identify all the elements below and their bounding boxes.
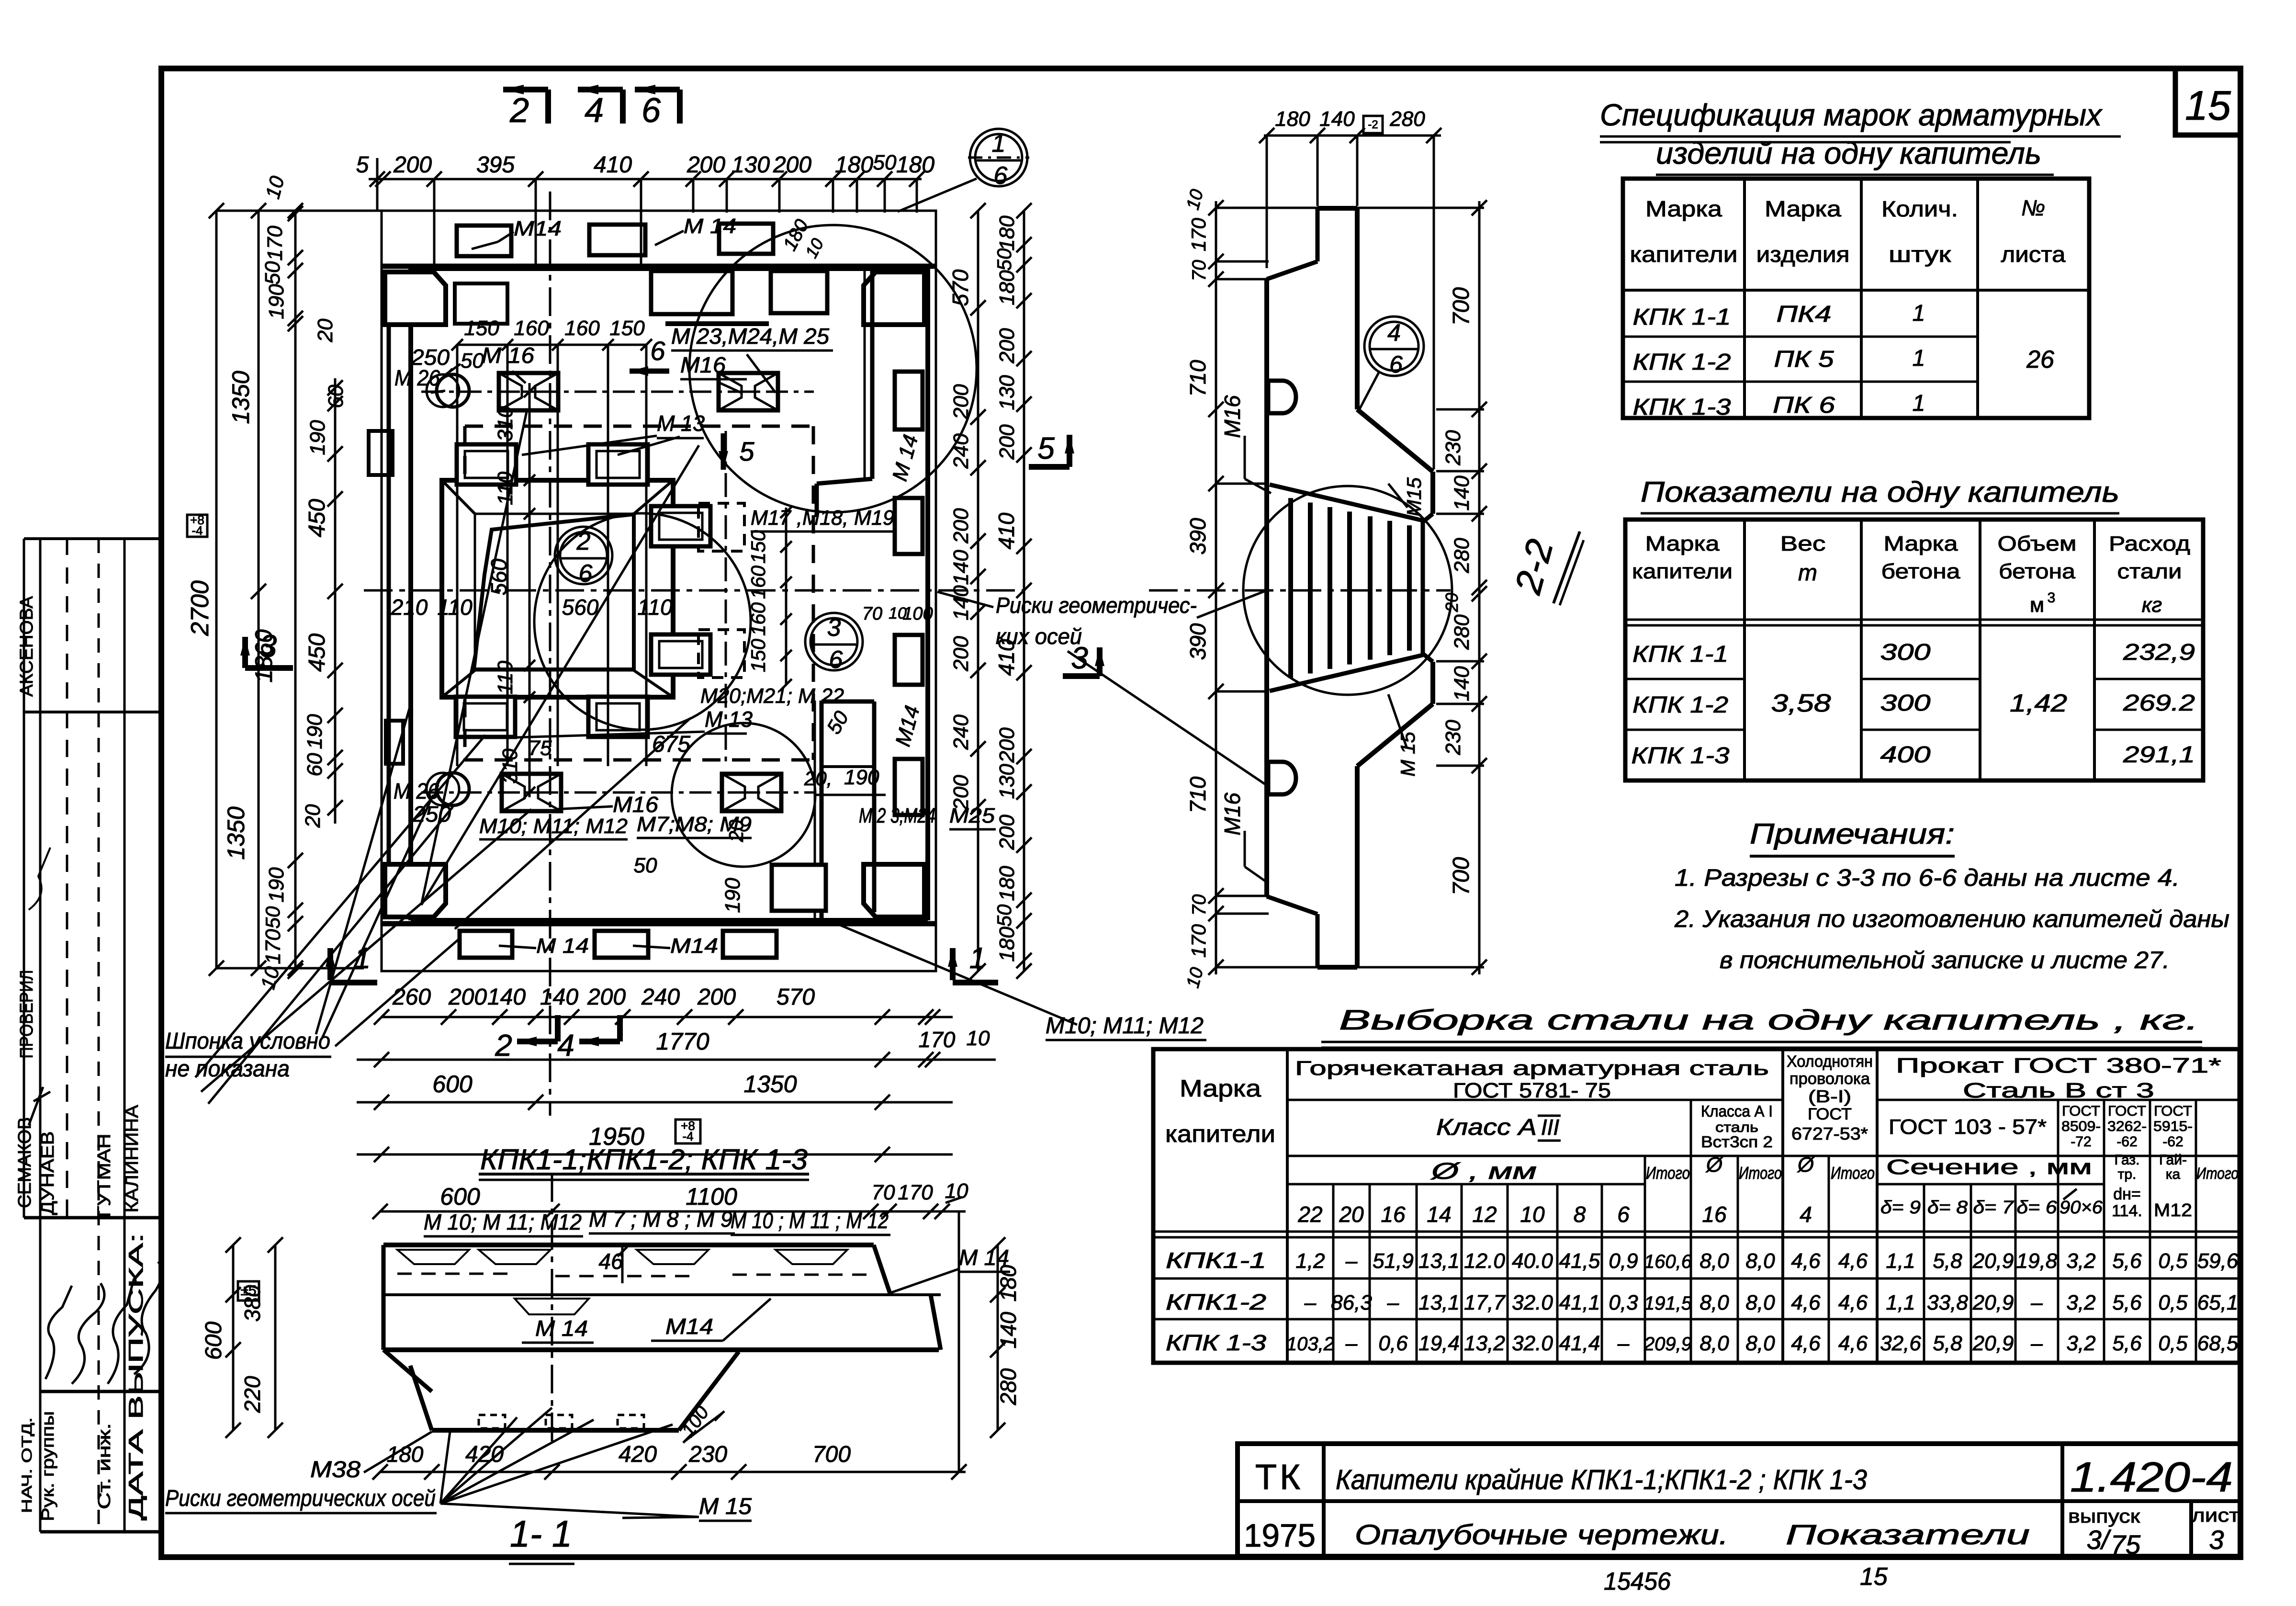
svg-text:50: 50	[261, 261, 284, 284]
svg-text:17,7: 17,7	[1464, 1291, 1506, 1314]
svg-text:М 14: М 14	[684, 215, 736, 238]
svg-text:50: 50	[993, 248, 1015, 271]
svg-text:6: 6	[1617, 1202, 1630, 1227]
svg-text:m: m	[1798, 560, 1817, 586]
svg-text:1: 1	[969, 942, 986, 975]
svg-text:150: 150	[464, 317, 499, 340]
svg-text:100: 100	[902, 604, 933, 624]
svg-text:Вес: Вес	[1780, 532, 1826, 555]
svg-text:110: 110	[637, 595, 673, 620]
svg-text:140: 140	[1450, 475, 1474, 511]
svg-text:150: 150	[747, 530, 769, 564]
svg-text:191,5: 191,5	[1644, 1293, 1692, 1314]
svg-text:-2: -2	[1368, 118, 1378, 131]
svg-text:М16: М16	[1220, 395, 1245, 438]
svg-text:М 23,М24,М 25: М 23,М24,М 25	[671, 324, 829, 349]
svg-text:в пояснительной записке и: в пояснительной записке и листе 27.	[1720, 947, 2170, 973]
svg-text:1: 1	[992, 130, 1006, 158]
svg-text:20: 20	[1442, 593, 1462, 612]
svg-text:130: 130	[995, 764, 1019, 799]
svg-text:86,3: 86,3	[1331, 1291, 1372, 1314]
svg-text:М 15: М 15	[699, 1494, 752, 1519]
svg-text:65,1: 65,1	[2197, 1291, 2239, 1314]
svg-text:штук: штук	[1889, 242, 1951, 267]
svg-text:10: 10	[967, 1027, 990, 1050]
svg-text:Марка: Марка	[1765, 196, 1841, 221]
svg-text:170: 170	[1187, 924, 1210, 958]
svg-text:700: 700	[1449, 287, 1474, 326]
svg-text:ГОСТ: ГОСТ	[2154, 1103, 2192, 1119]
svg-text:6: 6	[829, 646, 843, 674]
svg-text:Ø: Ø	[1797, 1153, 1815, 1176]
svg-text:8,0: 8,0	[1745, 1249, 1775, 1273]
svg-text:6: 6	[579, 560, 593, 588]
svg-text:269.2: 269.2	[2123, 690, 2195, 716]
svg-text:δ= 8: δ= 8	[1927, 1198, 1968, 1218]
svg-text:2700: 2700	[186, 580, 214, 636]
svg-text:310: 310	[498, 748, 522, 784]
svg-text:Марка: Марка	[1884, 532, 1958, 555]
svg-text:0,9: 0,9	[1609, 1249, 1638, 1273]
svg-text:Спецификация марок арматурн: Спецификация марок арматурных	[1600, 98, 2103, 132]
svg-text:Сталь В ст 3: Сталь В ст 3	[1963, 1079, 2154, 1102]
svg-text:Риски геометрических осей: Риски геометрических осей	[165, 1486, 436, 1511]
svg-text:50: 50	[461, 349, 484, 373]
svg-text:ких осей: ких осей	[996, 624, 1082, 649]
svg-text:240: 240	[949, 433, 973, 469]
svg-text:(В-I): (В-I)	[1808, 1086, 1851, 1106]
svg-text:ГОСТ 5781- 75: ГОСТ 5781- 75	[1453, 1079, 1611, 1102]
svg-text:280: 280	[1450, 614, 1474, 650]
svg-text:2: 2	[495, 1028, 512, 1063]
svg-text:3,2: 3,2	[2066, 1249, 2095, 1273]
svg-text:капители: капители	[1630, 242, 1738, 267]
svg-text:III: III	[1541, 1115, 1560, 1140]
svg-text:–: –	[1387, 1291, 1399, 1314]
svg-text:бетона: бетона	[1999, 560, 2076, 583]
svg-text:150: 150	[747, 638, 769, 672]
svg-text:4,6: 4,6	[1791, 1291, 1821, 1314]
svg-text:150: 150	[609, 317, 645, 340]
svg-text:8,0: 8,0	[1745, 1332, 1775, 1355]
svg-text:4,6: 4,6	[1838, 1332, 1868, 1355]
svg-text:Показатели: Показатели	[1786, 1519, 2030, 1550]
svg-text:Класса А I: Класса А I	[1701, 1102, 1773, 1120]
svg-text:16: 16	[1381, 1202, 1406, 1227]
svg-text:390: 390	[1185, 518, 1210, 554]
svg-text:М 10 ; М 11 ; М 12: М 10 ; М 11 ; М 12	[731, 1208, 889, 1233]
svg-text:710: 710	[1185, 360, 1210, 396]
svg-text:180: 180	[1275, 107, 1310, 131]
svg-text:М 26: М 26	[394, 365, 440, 390]
svg-text:200: 200	[995, 424, 1019, 460]
svg-text:190: 190	[844, 766, 879, 789]
svg-text:КПК 1-2: КПК 1-2	[1633, 350, 1731, 375]
svg-text:1,2: 1,2	[1295, 1249, 1325, 1273]
svg-text:КПК 1-3: КПК 1-3	[1166, 1330, 1267, 1355]
svg-text:1- 1: 1- 1	[510, 1513, 572, 1555]
svg-text:8,0: 8,0	[1745, 1291, 1775, 1314]
svg-text:выпуск: выпуск	[2068, 1506, 2140, 1527]
svg-text:М 26: М 26	[394, 779, 439, 803]
svg-text:180: 180	[996, 1265, 1021, 1301]
svg-text:180: 180	[896, 152, 934, 178]
svg-text:190: 190	[306, 420, 329, 455]
svg-text:12: 12	[1472, 1202, 1497, 1227]
svg-text:4: 4	[585, 91, 604, 130]
svg-text:Шпонка условно: Шпонка условно	[165, 1029, 330, 1054]
svg-text:1350: 1350	[227, 371, 254, 424]
svg-text:200: 200	[995, 814, 1019, 850]
svg-text:Марка: Марка	[1645, 196, 1722, 221]
svg-text:ПК 6: ПК 6	[1773, 393, 1835, 418]
svg-text:280: 280	[1450, 538, 1474, 574]
svg-text:ПРОВЕРИЛ: ПРОВЕРИЛ	[17, 970, 37, 1059]
svg-text:33,8: 33,8	[1927, 1291, 1968, 1314]
svg-text:6: 6	[1389, 351, 1403, 378]
svg-text:5,6: 5,6	[2112, 1291, 2142, 1314]
svg-text:Итого: Итого	[2196, 1165, 2239, 1183]
svg-text:НАЧ. ОТД.: НАЧ. ОТД.	[19, 1417, 35, 1513]
svg-text:δ= 7: δ= 7	[1973, 1198, 2015, 1218]
svg-text:М38: М38	[310, 1457, 360, 1482]
svg-text:М 7 ; М 8 ; М 9: М 7 ; М 8 ; М 9	[589, 1207, 732, 1232]
svg-text:41,5: 41,5	[1559, 1249, 1600, 1273]
svg-text:1. Разрезы с 3-3 по 6-6: 1. Разрезы с 3-3 по 6-6 даны на листе 4.	[1675, 864, 2180, 891]
svg-text:380: 380	[240, 1285, 265, 1322]
svg-text:М16: М16	[680, 352, 726, 377]
svg-text:140: 140	[1319, 107, 1355, 131]
svg-text:5,6: 5,6	[2112, 1249, 2142, 1273]
svg-text:8509-: 8509-	[2061, 1119, 2101, 1134]
svg-text:Риски геометричес-: Риски геометричес-	[996, 593, 1197, 618]
svg-text:15: 15	[2185, 83, 2231, 129]
svg-text:20,9: 20,9	[1972, 1291, 2014, 1314]
svg-text:190: 190	[265, 867, 288, 903]
svg-text:390: 390	[1185, 623, 1210, 660]
svg-text:М25: М25	[949, 804, 995, 827]
svg-text:210: 210	[391, 595, 428, 620]
svg-text:1.420-4: 1.420-4	[2070, 1453, 2233, 1501]
svg-text:200: 200	[393, 152, 432, 178]
svg-text:300: 300	[1880, 640, 1931, 665]
svg-text:60: 60	[303, 753, 326, 776]
svg-text:Колич.: Колич.	[1881, 196, 1958, 221]
svg-text:Горячекатаная арматурная: Горячекатаная арматурная сталь	[1295, 1057, 1769, 1079]
svg-text:6: 6	[994, 162, 1008, 190]
svg-text:570: 570	[777, 984, 815, 1010]
svg-text:Примечания:: Примечания:	[1750, 818, 1955, 850]
svg-text:560: 560	[562, 595, 599, 620]
svg-text:70: 70	[872, 1181, 895, 1204]
svg-text:4,6: 4,6	[1791, 1332, 1821, 1355]
svg-text:КПК 1-3: КПК 1-3	[1632, 743, 1730, 769]
svg-text:41,4: 41,4	[1559, 1332, 1600, 1355]
svg-text:8,0: 8,0	[1699, 1291, 1729, 1314]
svg-text:Расход: Расход	[2109, 532, 2190, 555]
svg-text:ГУТМАН: ГУТМАН	[94, 1134, 114, 1218]
svg-text:22: 22	[1297, 1202, 1322, 1227]
svg-text:Объем: Объем	[1998, 532, 2077, 555]
svg-text:280: 280	[1389, 107, 1425, 131]
svg-text:4,6: 4,6	[1838, 1291, 1868, 1314]
svg-text:М10; М11; М12: М10; М11; М12	[1046, 1013, 1204, 1039]
svg-text:КПК1-1;КПК1-2; КПК 1-3: КПК1-1;КПК1-2; КПК 1-3	[480, 1143, 808, 1176]
svg-text:15456: 15456	[1604, 1568, 1671, 1595]
svg-text:ГОСТ 103 - 57*: ГОСТ 103 - 57*	[1889, 1115, 2047, 1139]
svg-text:200: 200	[697, 984, 736, 1010]
svg-text:КПК 1-2: КПК 1-2	[1632, 692, 1728, 718]
svg-text:20,9: 20,9	[1972, 1249, 2014, 1273]
svg-text:280: 280	[996, 1368, 1021, 1405]
svg-text:570: 570	[948, 269, 973, 306]
svg-text:Капители крайние КПК1-1;КПК1-2: Капители крайние КПК1-1;КПК1-2 ; КПК 1-3	[1336, 1464, 1867, 1495]
svg-text:Выборка стали на: Выборка стали на одну капитель , кг.	[1339, 1005, 2199, 1036]
svg-text:5: 5	[356, 152, 369, 178]
svg-text:2. Указания по изготовлению: 2. Указания по изготовлению капителей да…	[1674, 905, 2229, 932]
svg-text:50: 50	[634, 854, 657, 877]
svg-text:32.0: 32.0	[1512, 1291, 1553, 1314]
svg-text:190: 190	[303, 714, 326, 749]
svg-text:М 15: М 15	[1396, 732, 1419, 777]
svg-text:Газ.: Газ.	[2115, 1152, 2140, 1168]
svg-text:м: м	[2030, 593, 2044, 617]
svg-text:200: 200	[587, 984, 626, 1010]
svg-text:–: –	[2030, 1291, 2043, 1314]
svg-text:32,6: 32,6	[1880, 1332, 1921, 1355]
svg-text:КПК1-1: КПК1-1	[1166, 1248, 1266, 1273]
svg-text:310: 310	[494, 406, 517, 441]
svg-text:14: 14	[1427, 1202, 1451, 1227]
svg-text:3: 3	[2048, 590, 2056, 606]
svg-text:4,6: 4,6	[1791, 1249, 1821, 1273]
svg-text:232,9: 232,9	[2123, 640, 2195, 665]
svg-text:3/: 3/	[2087, 1525, 2112, 1555]
svg-text:Опалубочные чертежи.: Опалубочные чертежи.	[1355, 1519, 1728, 1550]
svg-text:Прокат ГОСТ 380-71*: Прокат ГОСТ 380-71*	[1896, 1054, 2221, 1077]
svg-text:0,3: 0,3	[1609, 1291, 1638, 1314]
svg-text:3,58: 3,58	[1771, 690, 1831, 717]
svg-text:М12: М12	[2154, 1200, 2192, 1221]
svg-text:140: 140	[540, 984, 578, 1010]
svg-text:проволока: проволока	[1790, 1070, 1870, 1088]
svg-text:15: 15	[1860, 1563, 1888, 1591]
svg-text:50: 50	[261, 906, 284, 928]
svg-text:200: 200	[949, 384, 973, 420]
svg-text:8,0: 8,0	[1699, 1332, 1729, 1355]
svg-text:200: 200	[448, 984, 487, 1010]
svg-text:М 13: М 13	[657, 411, 705, 436]
svg-text:1770: 1770	[656, 1028, 709, 1055]
svg-text:ГОСТ: ГОСТ	[2108, 1103, 2146, 1119]
svg-text:М 2 3;М24: М 2 3;М24	[859, 804, 935, 827]
svg-text:700: 700	[812, 1442, 851, 1467]
svg-text:Вст3сп 2: Вст3сп 2	[1701, 1133, 1773, 1151]
svg-text:–: –	[1304, 1291, 1317, 1314]
svg-text:кг: кг	[2142, 593, 2162, 617]
svg-text:13,1: 13,1	[1418, 1291, 1460, 1314]
svg-text:Класс А: Класс А	[1436, 1115, 1537, 1140]
svg-text:М14: М14	[665, 1314, 713, 1339]
svg-text:М 14: М 14	[535, 1316, 588, 1341]
svg-text:13,2: 13,2	[1464, 1332, 1505, 1355]
svg-text:Ø: Ø	[1705, 1153, 1724, 1176]
svg-text:δ= 9: δ= 9	[1880, 1198, 1921, 1218]
svg-text:220: 220	[240, 1376, 265, 1413]
svg-text:М 10; М 11; М12: М 10; М 11; М12	[424, 1210, 582, 1234]
svg-text:4,6: 4,6	[1838, 1249, 1868, 1273]
svg-text:10: 10	[1520, 1202, 1545, 1227]
svg-text:1: 1	[1913, 346, 1925, 371]
svg-text:М 14: М 14	[536, 934, 589, 958]
svg-text:180: 180	[995, 270, 1019, 305]
svg-text:420: 420	[619, 1442, 657, 1467]
svg-text:0,6: 0,6	[1378, 1332, 1408, 1355]
svg-text:1100: 1100	[686, 1183, 737, 1210]
svg-text:180: 180	[995, 927, 1019, 962]
svg-text:200: 200	[687, 152, 725, 178]
svg-text:-62: -62	[2162, 1134, 2183, 1150]
svg-text:тр.: тр.	[2118, 1166, 2137, 1182]
svg-text:5: 5	[739, 436, 754, 466]
svg-text:60: 60	[324, 385, 348, 408]
svg-text:140: 140	[487, 984, 526, 1010]
svg-text:0,5: 0,5	[2158, 1249, 2188, 1273]
svg-text:СЕМАКОВ: СЕМАКОВ	[15, 1117, 35, 1208]
svg-text:180: 180	[995, 215, 1019, 251]
svg-text:АКСЕНОВА: АКСЕНОВА	[17, 596, 37, 697]
svg-text:8,0: 8,0	[1699, 1249, 1729, 1273]
svg-text:ка: ка	[2166, 1166, 2181, 1182]
svg-text:5,8: 5,8	[1933, 1249, 1962, 1273]
svg-text:Итого: Итого	[1831, 1163, 1875, 1183]
svg-text:450: 450	[304, 499, 330, 537]
svg-text:Ø , мм: Ø , мм	[1430, 1159, 1537, 1184]
svg-text:1975: 1975	[1244, 1517, 1316, 1554]
svg-text:19,4: 19,4	[1418, 1332, 1460, 1355]
svg-text:75: 75	[529, 736, 552, 760]
svg-text:160: 160	[747, 602, 769, 636]
svg-text:3: 3	[2209, 1525, 2224, 1555]
svg-text:Итого: Итого	[1739, 1163, 1782, 1183]
svg-text:20,: 20,	[804, 767, 832, 790]
svg-text:-4: -4	[191, 523, 203, 538]
svg-text:Марка: Марка	[1180, 1075, 1261, 1102]
svg-text:1,1: 1,1	[1886, 1249, 1915, 1273]
svg-text:50: 50	[993, 904, 1015, 927]
svg-text:5,8: 5,8	[1933, 1332, 1962, 1355]
svg-text:12.0: 12.0	[1464, 1249, 1505, 1273]
svg-text:26: 26	[2026, 346, 2054, 373]
svg-text:М16: М16	[1220, 792, 1245, 836]
svg-text:Холоднотян: Холоднотян	[1787, 1052, 1873, 1071]
svg-text:190: 190	[721, 878, 744, 913]
svg-text:1350: 1350	[223, 806, 249, 860]
svg-text:5,6: 5,6	[2112, 1332, 2142, 1355]
svg-text:4: 4	[1387, 319, 1401, 346]
svg-text:70: 70	[1189, 260, 1210, 282]
svg-text:230: 230	[1441, 720, 1465, 756]
svg-text:ДУНАЕВ: ДУНАЕВ	[38, 1131, 58, 1215]
svg-text:ПК4: ПК4	[1777, 302, 1832, 327]
svg-text:180: 180	[995, 866, 1019, 901]
svg-text:240: 240	[641, 984, 680, 1010]
svg-text:240: 240	[949, 714, 973, 750]
svg-text:№: №	[2021, 195, 2045, 220]
svg-text:2: 2	[509, 91, 529, 130]
svg-text:6: 6	[650, 336, 665, 366]
svg-text:Итого: Итого	[1646, 1163, 1690, 1183]
svg-text:Гай-: Гай-	[2159, 1152, 2187, 1168]
svg-text:лист: лист	[2192, 1505, 2240, 1526]
svg-text:М14: М14	[514, 217, 562, 240]
svg-text:160: 160	[747, 565, 769, 599]
svg-text:13,1: 13,1	[1418, 1249, 1460, 1273]
svg-text:200: 200	[949, 636, 973, 672]
svg-text:0,5: 0,5	[2158, 1332, 2188, 1355]
svg-text:230: 230	[1441, 430, 1465, 466]
svg-text:170: 170	[898, 1181, 933, 1204]
svg-text:3,2: 3,2	[2066, 1332, 2095, 1355]
svg-text:изделий на одну капитель: изделий на одну капитель	[1656, 136, 2041, 170]
svg-text:3: 3	[259, 628, 277, 664]
svg-text:КПК 1-3: КПК 1-3	[1633, 395, 1731, 420]
svg-text:КПК 1-1: КПК 1-1	[1632, 642, 1728, 667]
svg-text:410: 410	[594, 152, 632, 178]
svg-text:1,42: 1,42	[2010, 690, 2067, 717]
svg-text:-62: -62	[2116, 1134, 2137, 1150]
svg-text:–: –	[1345, 1332, 1358, 1355]
svg-text:230: 230	[688, 1442, 727, 1467]
svg-text:-72: -72	[2071, 1134, 2091, 1150]
svg-text:dн=: dн=	[2113, 1185, 2141, 1203]
svg-text:5915-: 5915-	[2153, 1119, 2193, 1134]
svg-text:М 16: М 16	[482, 343, 534, 368]
svg-text:59,6: 59,6	[2197, 1249, 2239, 1273]
svg-text:Ст. инж.: Ст. инж.	[94, 1423, 114, 1509]
svg-text:капители: капители	[1632, 560, 1733, 583]
svg-text:1350: 1350	[743, 1071, 797, 1097]
svg-text:–: –	[1345, 1249, 1358, 1273]
svg-text:51,9: 51,9	[1373, 1249, 1414, 1273]
svg-text:М 13: М 13	[705, 707, 753, 732]
svg-text:0,5: 0,5	[2158, 1291, 2188, 1314]
svg-text:20: 20	[314, 318, 337, 342]
svg-text:50: 50	[873, 151, 897, 174]
svg-text:130: 130	[995, 375, 1019, 410]
svg-text:70: 70	[862, 604, 882, 624]
svg-text:300: 300	[1880, 690, 1931, 716]
svg-text:190: 190	[265, 284, 288, 319]
svg-text:260: 260	[392, 984, 431, 1010]
svg-text:ГОСТ: ГОСТ	[2062, 1103, 2100, 1119]
svg-text:160: 160	[514, 317, 549, 340]
svg-text:200: 200	[773, 152, 811, 178]
svg-text:Показатели на одну капи: Показатели на одну капитель	[1641, 476, 2119, 508]
svg-text:114.: 114.	[2112, 1202, 2142, 1220]
svg-text:395: 395	[476, 152, 515, 178]
svg-text:ДАТА ВЫПУСКА:: ДАТА ВЫПУСКА:	[124, 1233, 147, 1520]
svg-text:170: 170	[1187, 217, 1210, 251]
svg-text:291,1: 291,1	[2123, 742, 2195, 768]
svg-text:6727-53*: 6727-53*	[1791, 1124, 1868, 1143]
svg-text:600: 600	[440, 1183, 480, 1210]
svg-text:–: –	[2030, 1332, 2043, 1355]
svg-text:20: 20	[1339, 1202, 1364, 1227]
svg-text:бетона: бетона	[1881, 560, 1961, 583]
svg-text:75: 75	[2111, 1529, 2141, 1560]
svg-text:200: 200	[949, 508, 973, 544]
